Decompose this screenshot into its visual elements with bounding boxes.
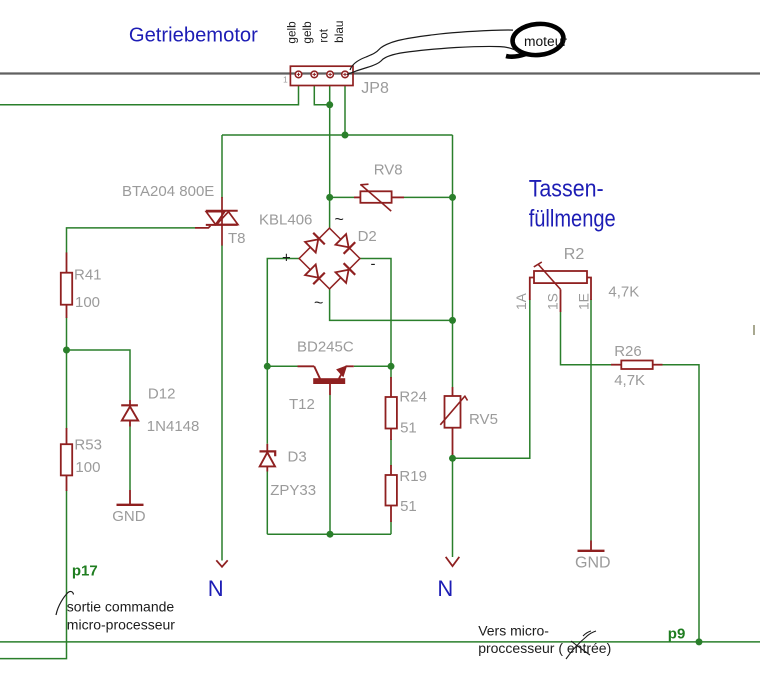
node bridge bottom right column: [449, 317, 456, 324]
hand-drawn motor lead upper: [350, 30, 513, 70]
varistor RV5: [440, 387, 498, 455]
svg-text:D3: D3: [288, 449, 307, 466]
title Tassen-füllmenge: [529, 176, 616, 233]
svg-text:GND: GND: [575, 555, 611, 572]
svg-text:Vers micro-: Vers micro-: [478, 622, 549, 638]
svg-text:gelb: gelb: [300, 21, 314, 44]
diode D12 1N4148: [121, 386, 199, 435]
label BD245C: [297, 339, 354, 356]
svg-text:T12: T12: [289, 396, 315, 413]
varistor RV8: [354, 162, 404, 212]
svg-text:1S: 1S: [545, 293, 560, 310]
wire R53 bottom down to p17 exit: [0, 491, 67, 659]
wire net from JP8 pin4 down to top rail: [344, 86, 346, 135]
wire node to R24 top: [390, 366, 392, 378]
node R41 R53 D12: [63, 347, 70, 354]
svg-text:sortie commande: sortie commande: [67, 599, 175, 615]
title Getriebemotor: [129, 24, 258, 46]
node RV8 right: [449, 194, 456, 201]
wire R2 1E lead down to GND: [590, 299, 592, 541]
bridge rectifier D2 KBL406: [282, 212, 376, 313]
wire net from JP8 pin1 to left edge: [0, 86, 299, 105]
node pin4 on top rail: [342, 132, 349, 139]
wire R26 right to p9 column: [663, 365, 700, 642]
resistor R53: [61, 428, 102, 491]
wire R2 1S lead to R26 left: [561, 312, 612, 365]
svg-text:R2: R2: [564, 246, 585, 263]
moteur ellipse: [506, 22, 568, 57]
svg-text:1A: 1A: [514, 292, 529, 310]
potentiometer R2: [514, 246, 639, 312]
wire net from JP8 pin3 down to RV8 node: [329, 86, 331, 197]
wire bridge minus corner to R24 column: [360, 259, 391, 367]
svg-text:JP8: JP8: [361, 80, 389, 97]
zener diode D3 ZPY33: [260, 444, 317, 499]
svg-text:51: 51: [400, 420, 417, 437]
wire bridge plus corner to T12 collector column: [267, 259, 299, 367]
wire drop from top rail to RV8 right node: [452, 135, 454, 197]
wire T12 base column down to bottom rail: [329, 395, 331, 534]
wire D12 bottom to GND: [129, 427, 131, 491]
svg-text:1E: 1E: [577, 293, 592, 310]
resistor R41: [61, 253, 102, 319]
node RV5 bottom: [449, 455, 456, 462]
wire top horizontal rail: [222, 134, 453, 136]
wire right column RV8 node to bridge bottom node: [452, 197, 454, 320]
resistor R24: [386, 377, 427, 440]
label gelb pin2: [300, 21, 314, 44]
wire RV5 node to R2 1A lead: [453, 299, 530, 458]
svg-text:+: +: [282, 250, 291, 267]
svg-text:N: N: [208, 576, 224, 601]
note Vers micro-proccesseur entrée: [478, 622, 611, 656]
wire drop from top rail to triac T8: [221, 135, 223, 198]
connector JP8: [283, 66, 389, 97]
label BTA204 800E: [122, 183, 214, 200]
svg-text:BD245C: BD245C: [297, 339, 354, 356]
label blau pin4: [332, 20, 346, 42]
note sortie commande micro-processeur: [67, 599, 175, 633]
label KBL406: [259, 212, 312, 229]
wire R19 bottom to bottom rail: [390, 522, 392, 535]
hand-drawn motor lead lower: [347, 46, 520, 74]
wire bridge bottom node down to RV5: [452, 320, 454, 387]
wire from RV8 node down to bridge top corner: [329, 197, 331, 228]
node pin2-pin3 junction: [326, 101, 333, 108]
wire collector node down to D3: [266, 366, 268, 444]
svg-text:D2: D2: [358, 228, 377, 245]
svg-text:4,7K: 4,7K: [614, 372, 645, 389]
hand-drawn scribble near entrée: [566, 631, 596, 659]
svg-text:R19: R19: [399, 468, 427, 485]
node base bottom rail: [327, 531, 334, 538]
wire RV5 bottom to node and N: [452, 453, 454, 557]
node RV8 left: [326, 194, 333, 201]
wire bottom rail of T12 cell: [267, 533, 391, 535]
svg-text:KBL406: KBL406: [259, 212, 312, 229]
svg-text:100: 100: [75, 294, 100, 311]
svg-text:Getriebemotor: Getriebemotor: [129, 24, 258, 46]
wire triac gate to R41 column: [67, 228, 196, 253]
wire bottom full-width net: [0, 641, 760, 643]
svg-text:1N4148: 1N4148: [147, 418, 200, 435]
svg-text:~: ~: [314, 295, 323, 312]
svg-text:Tassen-: Tassen-: [529, 176, 604, 203]
node T12 collector: [264, 363, 271, 370]
supply arrow N left: [208, 560, 228, 601]
svg-text:p9: p9: [668, 626, 686, 643]
svg-text:100: 100: [75, 459, 100, 476]
svg-text:micro-processeur: micro-processeur: [67, 616, 175, 632]
svg-text:T8: T8: [228, 230, 246, 247]
wire collector link: [267, 365, 297, 367]
wire R41 bottom to node: [66, 318, 68, 351]
wire net from JP8 pin2 to node under pin3: [314, 86, 329, 105]
svg-text:RV5: RV5: [469, 411, 498, 428]
svg-text:p17: p17: [72, 563, 98, 580]
right edge tick mark: [753, 325, 755, 335]
label p17: [72, 563, 98, 580]
svg-text:4,7K: 4,7K: [608, 284, 639, 301]
triac T8: [195, 197, 246, 247]
hand-drawn tick near p17: [56, 591, 74, 615]
svg-text:GND: GND: [112, 508, 146, 525]
wire R24 bottom to R19 top: [390, 439, 392, 466]
wire D3 bottom to bottom rail: [266, 472, 268, 535]
wire bridge bottom corner to right column node: [330, 289, 453, 321]
label gelb pin1: [285, 21, 299, 44]
svg-text:blau: blau: [332, 20, 346, 42]
svg-text:ZPY33: ZPY33: [270, 482, 316, 499]
node T12 emitter R24: [388, 363, 395, 370]
svg-text:gelb: gelb: [285, 21, 299, 44]
svg-text:moteur: moteur: [524, 34, 568, 49]
wire RV8 right link: [404, 196, 453, 198]
wire gray bus line: [0, 72, 760, 74]
svg-text:1: 1: [283, 75, 288, 85]
wire node to D12 top: [67, 350, 131, 400]
ground GND under D12: [112, 490, 146, 525]
label p9: [668, 626, 686, 643]
svg-text:BTA204 800E: BTA204 800E: [122, 183, 214, 200]
resistor R19: [386, 465, 427, 522]
ground GND under R2 1E: [575, 541, 611, 572]
label rot pin3: [317, 28, 331, 42]
svg-text:R24: R24: [399, 388, 427, 405]
svg-text:R41: R41: [74, 266, 102, 283]
svg-text:RV8: RV8: [374, 162, 403, 179]
supply arrow N right: [437, 557, 459, 601]
resistor R26: [611, 343, 663, 389]
label D2: [358, 228, 377, 245]
svg-text:rot: rot: [317, 28, 331, 42]
svg-text:füllmenge: füllmenge: [529, 206, 616, 233]
svg-text:~: ~: [335, 212, 344, 229]
svg-text:N: N: [437, 576, 453, 601]
node p9: [696, 638, 703, 645]
svg-text:proccesseur ( entrée): proccesseur ( entrée): [478, 640, 611, 656]
svg-text:R53: R53: [74, 437, 102, 454]
svg-text:D12: D12: [148, 386, 176, 403]
wire node to R53 top: [66, 350, 68, 429]
svg-text:R26: R26: [614, 343, 642, 360]
wire triac cathode down to N: [221, 245, 223, 561]
svg-text:51: 51: [400, 498, 417, 515]
wire emitter link: [354, 365, 391, 367]
transistor T12 BD245C: [289, 366, 354, 413]
wire RV8 left link: [330, 196, 354, 198]
svg-text:-: -: [371, 256, 376, 273]
